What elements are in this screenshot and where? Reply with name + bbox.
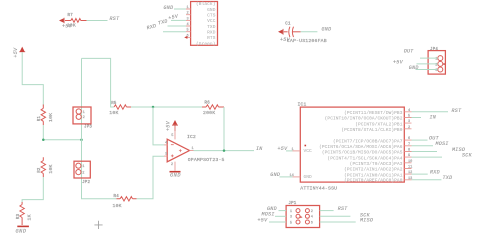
wire FTDI VCC <box>171 19 186 21</box>
svg-text:SCK: SCK <box>462 152 473 158</box>
wire op-amp output to IN <box>194 150 255 152</box>
svg-text:6: 6 <box>408 137 410 141</box>
wire JP1 RST <box>320 210 334 212</box>
wire FTDI RXD <box>163 31 186 33</box>
wire JP1 GND <box>279 210 287 212</box>
svg-text:JP2: JP2 <box>82 181 90 185</box>
svg-text:10K: 10K <box>48 113 54 122</box>
svg-text:CAP-US1206FAB: CAP-US1206FAB <box>287 38 327 44</box>
svg-text:+5V: +5V <box>13 47 19 58</box>
svg-text:(PCINT10/INT0/OC0A/CKOUT)PB2: (PCINT10/INT0/OC0A/CKOUT)PB2 <box>325 116 403 122</box>
svg-text:+5V: +5V <box>165 120 171 131</box>
svg-text:JP1: JP1 <box>288 202 296 206</box>
svg-text:3: 3 <box>165 153 167 157</box>
svg-text:JP3: JP3 <box>84 125 92 129</box>
header JP1 (ISP 2x3) <box>286 202 320 228</box>
wire pin7 to MOSI <box>412 145 434 147</box>
svg-text:2: 2 <box>311 210 313 214</box>
svg-text:2: 2 <box>171 163 173 167</box>
svg-text:1: 1 <box>192 147 194 151</box>
RTS pin arrow marker <box>184 36 187 39</box>
wire FTDI GND <box>174 8 186 10</box>
svg-text:IN: IN <box>430 114 437 120</box>
wire JP4 OUT <box>420 57 438 59</box>
ground below op-amp <box>170 172 182 179</box>
wire node down through JP2 to R4 row <box>82 140 117 199</box>
junction node A <box>42 138 45 141</box>
svg-text:GND: GND <box>409 65 419 71</box>
svg-text:R6: R6 <box>205 102 211 106</box>
wire +5V down-right to R1 <box>22 52 43 105</box>
svg-text:CTS: CTS <box>207 13 216 19</box>
svg-text:+5V: +5V <box>393 59 404 65</box>
svg-text:IC1: IC1 <box>298 101 307 107</box>
svg-text:GND: GND <box>170 173 181 179</box>
svg-text:1: 1 <box>290 210 292 214</box>
capacitor C1 with +5V arrow <box>278 22 327 44</box>
svg-text:TXD: TXD <box>443 175 453 181</box>
+5V arrow above op-amp <box>165 120 178 131</box>
resistor R7 with +5V arrow <box>59 14 87 29</box>
resistor R2 <box>38 157 54 177</box>
svg-text:(PCINT8/XTAL1/CLKI)PB0: (PCINT8/XTAL1/CLKI)PB0 <box>341 127 402 133</box>
svg-text:9: 9 <box>408 154 410 158</box>
svg-text:OUT: OUT <box>404 49 415 55</box>
svg-text:11: 11 <box>408 166 412 170</box>
svg-text:GND: GND <box>304 174 313 180</box>
wire R2 to R3 <box>22 177 43 203</box>
wire R4 to opamp + input <box>137 156 165 199</box>
wire pin8 to MISO <box>412 151 438 153</box>
svg-text:(PCINT6/OC1A/SDA/MOSI/ADC6)PA6: (PCINT6/OC1A/SDA/MOSI/ADC6)PA6 <box>319 144 403 150</box>
svg-text:5: 5 <box>187 29 189 33</box>
wire JP4 GND <box>416 69 438 71</box>
svg-text:RXD: RXD <box>430 170 440 176</box>
svg-text:3: 3 <box>290 216 292 220</box>
wire FTDI TXD <box>168 25 187 27</box>
svg-text:GND: GND <box>164 5 174 11</box>
svg-text:4: 4 <box>408 109 410 113</box>
wire JP4 +5V <box>417 63 438 65</box>
svg-text:GND: GND <box>270 172 280 178</box>
svg-text:6: 6 <box>311 221 313 225</box>
svg-text:RST: RST <box>110 16 121 22</box>
svg-text:4: 4 <box>187 23 189 27</box>
header JP4 (1x3) <box>428 48 445 74</box>
junction R5/R6 tap <box>152 106 155 109</box>
wire pin12 to RXD <box>412 173 428 175</box>
wire R5 to R6 with tap <box>131 106 202 108</box>
wire node row <box>43 139 81 141</box>
svg-text:2: 2 <box>83 116 85 120</box>
svg-text:(Green): (Green) <box>196 41 215 47</box>
svg-text:2: 2 <box>187 12 189 16</box>
svg-text:(PCINT11/RESET/DW)PB3: (PCINT11/RESET/DW)PB3 <box>344 110 403 116</box>
svg-text:1: 1 <box>187 6 189 10</box>
wire pin6 to OUT <box>412 139 428 141</box>
resistor R5 <box>109 102 131 116</box>
svg-text:1: 1 <box>82 165 84 169</box>
svg-text:4: 4 <box>311 216 313 220</box>
op-amp IC2 <box>164 131 225 171</box>
svg-text:VCC: VCC <box>304 148 313 154</box>
svg-text:R4: R4 <box>114 195 120 199</box>
IC1 right pin stubs and numbers <box>404 109 412 181</box>
svg-text:5: 5 <box>171 134 173 138</box>
svg-text:(PCINT3/T0/ADC3)PA3: (PCINT3/T0/ADC3)PA3 <box>350 161 403 167</box>
resistor R3 <box>17 202 33 225</box>
svg-text:200K: 200K <box>203 110 215 116</box>
svg-text:2: 2 <box>82 172 84 176</box>
svg-text:3: 3 <box>187 17 189 21</box>
wire pin13 to TXD <box>412 179 442 181</box>
wire JP1 SCK <box>320 215 351 217</box>
svg-text:R3: R3 <box>17 213 21 219</box>
junction output/feedback <box>223 149 226 152</box>
svg-text:(PCINT2/AIN1/ADC2)PA2: (PCINT2/AIN1/ADC2)PA2 <box>344 167 403 173</box>
wire R7 to RST label <box>87 20 108 22</box>
wire JP1 MISO <box>320 221 356 223</box>
svg-text:RTS: RTS <box>207 35 216 41</box>
svg-text:VCC: VCC <box>207 18 216 24</box>
wire JP3 vertical <box>81 58 83 139</box>
svg-text:8: 8 <box>408 149 410 153</box>
svg-text:1K: 1K <box>27 214 33 220</box>
svg-text:5: 5 <box>408 115 410 119</box>
wire pin5 to IN <box>412 117 422 119</box>
svg-text:+5V: +5V <box>258 217 269 223</box>
svg-text:GND: GND <box>207 7 216 13</box>
+5V supply arrow top-left <box>13 47 25 58</box>
svg-text:C1: C1 <box>285 22 291 26</box>
svg-text:MOSI: MOSI <box>436 141 449 147</box>
svg-text:IC2: IC2 <box>187 134 196 140</box>
svg-text:(Black): (Black) <box>196 1 215 7</box>
svg-text:R7: R7 <box>68 14 74 18</box>
svg-text:10K: 10K <box>109 110 118 116</box>
svg-text:(PCINT1/AIN0/ADC1)PA1: (PCINT1/AIN0/ADC1)PA1 <box>344 172 403 178</box>
wire tap down to - input <box>153 107 164 145</box>
connector FTDI header <box>186 1 218 47</box>
svg-text:(PCINT4/T1/SCL/SCK/ADC4)PA4: (PCINT4/T1/SCL/SCK/ADC4)PA4 <box>327 155 402 161</box>
svg-text:10K: 10K <box>113 203 122 209</box>
svg-text:ATTINY44-SSU: ATTINY44-SSU <box>300 185 337 191</box>
svg-text:R5: R5 <box>111 102 117 106</box>
svg-text:R2: R2 <box>38 167 42 173</box>
IC1 left pin 14 GND <box>270 172 300 178</box>
svg-text:R1: R1 <box>38 115 42 121</box>
svg-text:RST: RST <box>338 206 349 212</box>
svg-text:10K: 10K <box>48 164 54 173</box>
svg-text:RST: RST <box>452 108 463 114</box>
svg-text:5: 5 <box>290 221 292 225</box>
svg-text:(PCINT0/AREF/ADC0)PA0: (PCINT0/AREF/ADC0)PA0 <box>344 178 403 184</box>
svg-text:TXD: TXD <box>207 24 216 30</box>
svg-text:7: 7 <box>408 143 410 147</box>
svg-text:(PCINT5/OC1B/MISO/DO/ADC5)PA5: (PCINT5/OC1B/MISO/DO/ADC5)PA5 <box>322 150 403 156</box>
jumper JP2 <box>74 161 91 185</box>
ground below R3 <box>16 226 29 234</box>
resistor R6 <box>202 102 224 116</box>
svg-text:4: 4 <box>165 141 167 145</box>
wire top loop to R5 <box>82 58 115 107</box>
wire R6 feedback down to output <box>223 107 225 151</box>
junction node B <box>80 138 83 141</box>
svg-text:JP4: JP4 <box>430 48 438 52</box>
wire JP1 MOSI <box>275 215 286 217</box>
svg-text:2: 2 <box>408 126 410 130</box>
svg-text:RXD: RXD <box>146 23 157 31</box>
resistor R1 <box>38 105 54 126</box>
svg-text:10K: 10K <box>67 23 76 29</box>
jumper JP3 <box>73 107 92 129</box>
IC1 left pin 1 VCC <box>278 146 301 152</box>
svg-text:MISO: MISO <box>360 218 373 224</box>
svg-text:+5V: +5V <box>278 146 289 152</box>
svg-text:GND: GND <box>322 26 332 32</box>
wire R1 to node <box>42 125 44 140</box>
wire C1 to GND label <box>301 31 318 33</box>
svg-text:IN: IN <box>256 146 263 152</box>
svg-text:10: 10 <box>408 160 412 164</box>
svg-text:(PCINT7/ICP/OC0B/ADC7)PA7: (PCINT7/ICP/OC0B/ADC7)PA7 <box>333 138 403 144</box>
svg-text:OPAMPSOT23-5: OPAMPSOT23-5 <box>188 157 225 163</box>
IC1 ATtiny44 <box>298 101 405 191</box>
svg-text:(PCINT9/XTAL2)PB1: (PCINT9/XTAL2)PB1 <box>355 121 402 127</box>
wire JP1 +5V <box>269 221 286 223</box>
wire pin4 to RST <box>412 111 449 113</box>
svg-text:1: 1 <box>83 111 85 115</box>
svg-text:GND: GND <box>16 228 27 234</box>
svg-text:TXD: TXD <box>157 18 168 26</box>
svg-text:3: 3 <box>408 120 410 124</box>
origin cross <box>94 221 102 229</box>
resistor R4 <box>113 195 137 209</box>
svg-text:RXD: RXD <box>207 30 216 36</box>
wire pin9 to SCK <box>412 156 443 158</box>
